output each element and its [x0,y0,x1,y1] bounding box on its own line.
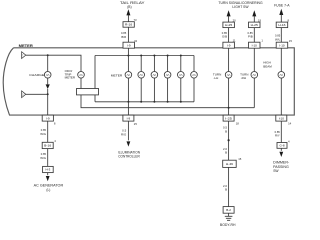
illumination lamp 3 [151,55,158,103]
meter cluster box METER [3,48,294,115]
svg-text:-RH: -RH [241,76,246,80]
svg-text:METER: METER [65,76,76,80]
connector B-2 [223,207,234,214]
wire to AC generator [47,173,49,176]
junction charge tap [47,54,49,56]
connector H-46 [223,160,237,167]
svg-text:METER: METER [19,44,34,48]
svg-text:8: 8 [54,121,56,125]
svg-text:R/G: R/G [121,133,127,137]
wire label 0.5 R/G [121,129,127,137]
wire top-left rail [26,55,81,71]
wire label 0.85 P/B [248,31,254,39]
svg-text:B: B [225,188,227,192]
connector G-8 [277,143,287,149]
wire resistor to turn-return run [81,95,254,108]
label AC GENERATOR (L) [34,184,64,193]
svg-text:H-46: H-46 [226,162,234,166]
wire B-16 to H-3 [47,149,49,167]
svg-text:LIGHT SW: LIGHT SW [232,5,249,9]
wire label 2.0 B [223,147,227,155]
wire label 0.85 B/R [121,31,127,39]
svg-text:B: B [225,129,227,133]
svg-text:R/Y: R/Y [275,134,280,138]
svg-text:25: 25 [134,122,138,126]
connector I-9 (tail) [123,42,135,48]
svg-text:B/R: B/R [121,35,126,39]
svg-text:H-25: H-25 [251,23,259,27]
svg-text:H-3: H-3 [45,168,50,172]
svg-text:SW: SW [273,169,279,173]
illumination lamp 2 [138,55,145,103]
svg-text:W/G: W/G [40,156,47,160]
label DIMMER-PASSING SW [273,160,289,173]
box B-16 [42,142,53,148]
relay box R-16 [123,22,134,28]
svg-text:4: 4 [288,139,290,143]
indicator lamp TURN-LH [213,72,232,81]
svg-text:I-25: I-25 [225,116,232,120]
indicator lamp TURN-RH [240,72,258,81]
svg-text:15: 15 [238,157,242,161]
svg-text:FUSE 7-A: FUSE 7-A [274,4,290,8]
connector I-10 (high beam bottom) [276,115,287,121]
svg-text:15: 15 [289,39,293,43]
svg-text:H-25: H-25 [225,23,233,27]
svg-text:H-16: H-16 [278,23,286,27]
switch box H-25 (LH) [223,22,235,28]
svg-text:BEAM: BEAM [263,65,272,69]
svg-text:I-9: I-9 [46,116,50,120]
svg-text:AC GENERATOR: AC GENERATOR [34,184,64,188]
wire label 0.85 R/Y [275,130,281,138]
arrow up (fuse) [279,9,283,15]
arrow up to TAIL RELAY [126,9,130,15]
splice junction [228,139,230,141]
node triangle connector 3 [22,91,26,98]
wire to G-8 [280,121,282,142]
svg-text:I-9: I-9 [227,43,231,47]
svg-text:DIMMER-: DIMMER- [273,160,289,164]
connector H-3 [43,166,54,172]
wire turn LH down [228,78,230,115]
wire turn RH down [253,78,255,108]
svg-text:I-10: I-10 [252,43,258,47]
wire label 0.85 G/B [222,31,228,39]
label ILLUMINATION CONTROLLER [118,150,141,158]
svg-text:-LH: -LH [214,76,219,80]
fuse box H-16 [276,22,288,28]
header TAIL RELAY [120,1,146,9]
svg-text:TAIL RELAY: TAIL RELAY [120,1,146,5]
svg-text:18: 18 [236,121,240,125]
svg-text:I-10: I-10 [279,43,285,47]
wire to H-46 [228,121,230,160]
svg-text:(L): (L) [46,188,50,192]
wire turn LH column [228,16,230,72]
connector I-10 (fuse) [276,42,288,48]
arrow up (turn LH) [227,10,231,16]
arrow up (turn RH) [252,10,256,16]
svg-text:14: 14 [288,121,292,125]
wire to dimmer-passing sw [280,148,282,151]
illumination lamp 5 [178,55,185,103]
wire illumination top rail [95,55,194,57]
wire label 0.85 W/G [40,152,47,160]
wire to illumination controller [127,121,129,140]
wire tail relay column [127,15,129,56]
svg-text:(B): (B) [127,5,131,9]
svg-text:W/G: W/G [40,132,47,136]
indicator lamp ODO/TRIP METER [65,69,85,80]
wire turn RH column [253,16,255,72]
diode [46,84,50,89]
illumination lamp 4 [164,55,171,103]
wire illumination feed down [127,102,129,115]
svg-text:METER: METER [111,74,123,78]
header TURN SIGNAL/CORNERING LIGHT SW [218,1,263,9]
indicator lamp CHARGE [29,72,51,79]
wire charge column upper [47,55,49,84]
svg-text:BODY-RH: BODY-RH [220,223,236,227]
connector I-9 (illumination) [123,115,134,121]
wire label 2.0 B [223,184,227,192]
wire illumination bottom rail [95,101,194,103]
wire to B-2 [228,167,230,206]
svg-text:B-2: B-2 [226,208,231,212]
svg-text:R-16: R-16 [125,23,133,27]
svg-text:B-16: B-16 [44,144,51,148]
svg-text:CONTROLLER: CONTROLLER [118,155,140,159]
connector I-9 (turn LH) [223,42,235,48]
svg-text:G/B: G/B [222,35,227,39]
illumination lamp 6 [191,56,198,102]
wire ODO to resistor [80,78,82,88]
svg-text:B: B [225,151,227,155]
wire charge to B-16 [47,121,49,142]
ground BODY-RH [220,213,236,227]
svg-text:4: 4 [54,139,56,143]
svg-text:I-9: I-9 [127,116,131,120]
arrow to dimmer-passing sw [279,152,283,157]
wire label 0.85 W/L [275,34,281,42]
junction turn return [228,107,230,109]
wire charge column lower [47,89,49,115]
wire inner box left edge [94,56,96,102]
svg-text:W/L: W/L [275,37,281,41]
svg-text:1: 1 [261,39,263,43]
connector I-25 (turn ground) [223,115,234,121]
svg-text:P/B: P/B [248,35,253,39]
junction [47,93,49,95]
wire triangle3 to charge column [26,93,48,95]
connector I-9 (charge bottom) [42,115,53,121]
wire label 0.5 B [223,126,227,134]
svg-text:PASSING: PASSING [273,165,289,169]
connector I-10 (turn RH) [249,42,261,48]
arrow to illumination controller [127,141,131,146]
illumination lamp 1 [125,55,132,103]
svg-text:I-10: I-10 [279,116,285,120]
wire fuse column [280,14,282,71]
svg-text:I-9: I-9 [127,43,131,47]
svg-text:G-8: G-8 [279,144,284,148]
arrow to AC generator [46,176,50,181]
wire label 0.85 W/G [40,128,47,136]
svg-text:CHARGE: CHARGE [29,73,44,77]
wire high beam down [280,78,282,115]
node triangle connector 7 [22,52,26,59]
resistor (illumination rheostat) [77,89,99,95]
indicator lamp HIGH BEAM [263,60,284,78]
switch box H-25 (RH) [249,22,261,28]
